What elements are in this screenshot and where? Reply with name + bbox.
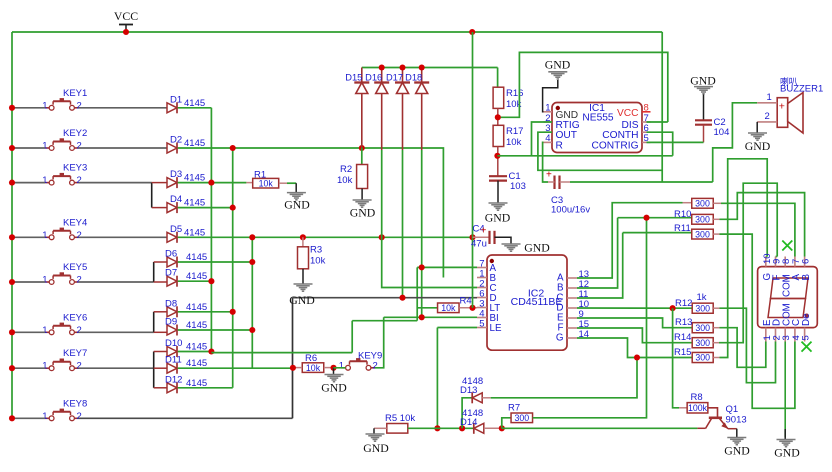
svg-text:47u: 47u: [471, 239, 487, 250]
wire column x252 (row5/D6/D9): [251, 237, 253, 368]
diode D17: [386, 68, 410, 151]
svg-text:300: 300: [695, 199, 710, 209]
svg-text:Q1: Q1: [726, 404, 739, 415]
wire buzzer feed: [713, 103, 758, 182]
svg-text:D15: D15: [345, 72, 362, 82]
pin 4 IC2 BI: [477, 308, 499, 324]
svg-text:VCC: VCC: [617, 108, 639, 119]
wire R7 to R10 node: [533, 218, 647, 418]
junction KEY5 left bus: [9, 279, 15, 285]
junction KEY2 left bus: [9, 145, 15, 151]
svg-text:R5 10k: R5 10k: [385, 413, 415, 424]
wire D10 row: [178, 351, 212, 353]
wire LE column to R5: [436, 328, 438, 429]
pin 6 IC2 D: [477, 288, 497, 304]
wire D12 row: [178, 387, 233, 389]
wire D17 column to D row: [402, 150, 404, 298]
wire R16-R17 junction to DIS riser: [497, 108, 499, 125]
switch KEY3: [42, 163, 87, 187]
svg-text:KEY1: KEY1: [63, 88, 87, 99]
wire R12 node to R8: [673, 308, 679, 408]
svg-text:D17: D17: [386, 72, 403, 82]
svg-text:1: 1: [42, 100, 47, 111]
wire R11 to display pin4 C: [713, 233, 719, 235]
wire C3 right to VCC riser: [560, 181, 571, 183]
wire R6 right to ground: [333, 368, 335, 374]
wire VCC column to LT: [472, 32, 474, 308]
wire D3 row to R1: [178, 182, 247, 184]
pin 2 IC1 RTIG: [544, 113, 580, 131]
wire R14 to display pin9 F: [712, 342, 719, 344]
svg-text:2: 2: [373, 360, 378, 371]
wire C1 to ground: [497, 181, 499, 203]
svg-text:R3: R3: [310, 245, 322, 256]
svg-text:1: 1: [42, 361, 47, 372]
svg-text:R15: R15: [674, 347, 691, 358]
svg-text:10k: 10k: [441, 303, 456, 313]
junction D16-D18 top rail: [379, 64, 385, 70]
svg-text:9013: 9013: [726, 415, 747, 426]
switch KEY9: [339, 351, 383, 372]
wire KEY4 to D5: [79, 236, 168, 238]
diode D13 4148: [460, 376, 483, 428]
resistor R8 100k: [687, 392, 708, 413]
svg-text:R16: R16: [506, 88, 523, 99]
svg-text:300: 300: [695, 215, 710, 225]
svg-text:D9: D9: [165, 317, 177, 328]
svg-text:D10: D10: [165, 338, 182, 349]
svg-text:CONTRIG: CONTRIG: [592, 140, 639, 151]
svg-text:104: 104: [714, 127, 730, 138]
resistor R6 10k: [293, 353, 334, 373]
pin 3 IC2 LT: [477, 298, 500, 314]
svg-text:1: 1: [339, 360, 344, 371]
resistor R14 300: [674, 332, 713, 348]
svg-text:De: De: [801, 313, 812, 326]
wire D9 row: [178, 329, 253, 331]
display DS1 7-segment body: [758, 267, 818, 328]
wire KEY2 leads: [12, 147, 45, 149]
wire KEY2 to D2: [79, 147, 168, 149]
junction R16/R17: [495, 114, 501, 120]
resistor R4 10k: [417, 295, 477, 313]
diode D4 4145: [167, 194, 205, 213]
wire OUT pin3 route: [538, 132, 662, 170]
wire BI row: [384, 316, 477, 318]
svg-text:GND: GND: [284, 198, 310, 212]
no-connect X display pin5: [802, 342, 812, 352]
svg-text:300: 300: [514, 413, 529, 423]
resistor R3 10k: [298, 237, 326, 268]
svg-text:1: 1: [42, 141, 47, 152]
svg-text:GND: GND: [774, 446, 800, 460]
pin 7 display A top: [791, 257, 802, 281]
wire R12 to D riser: [713, 307, 719, 309]
wire D16 column to C row: [382, 150, 477, 288]
diode D3 4145: [167, 169, 205, 188]
wire KEY1 leads: [12, 107, 45, 109]
wire R3 to ground: [302, 269, 304, 284]
diode D6 4145: [165, 249, 207, 268]
switch KEY2: [42, 128, 87, 152]
wire KEY9 to BI row: [375, 317, 384, 368]
junction KEY6 left bus: [9, 329, 15, 335]
diode D11 4145: [165, 355, 207, 374]
ground GND at C1: [489, 202, 508, 204]
wire VCC riser x662: [661, 32, 663, 182]
wire pin12 B riser: [577, 218, 618, 288]
transistor Q1 9013: [706, 404, 747, 429]
svg-text:KEY9: KEY9: [358, 351, 382, 362]
resistor R13 300: [675, 317, 713, 333]
svg-text:NE555: NE555: [582, 113, 613, 124]
wire D8 row: [178, 311, 233, 313]
wire KEY6 leads: [12, 331, 45, 333]
junction R17/C1/THR: [494, 153, 500, 159]
resistor R2 10k: [337, 164, 368, 189]
resistor R12 1k: [675, 292, 713, 313]
diode D14 4148: [460, 408, 484, 434]
pin 15 IC2 F: [558, 319, 590, 334]
svg-text:KEY3: KEY3: [63, 163, 87, 174]
wire column x211 (D1/D3/D7/D10): [210, 108, 212, 352]
wire D row (black) to IC2 pin6: [293, 297, 478, 299]
svg-text:R11: R11: [674, 223, 691, 234]
wire R17 to C1 and THR row: [497, 147, 499, 176]
junction KEY7 left bus: [9, 365, 15, 371]
wire D15 column to R2: [361, 148, 363, 165]
svg-text:BUZZER1: BUZZER1: [780, 84, 823, 95]
junction VCC rail: [123, 29, 129, 35]
svg-text:R13: R13: [675, 317, 692, 328]
svg-text:KEY8: KEY8: [63, 398, 87, 409]
op-amp U IC2 CD4511BE body: [487, 255, 567, 350]
svg-text:R12: R12: [675, 298, 692, 309]
svg-text:1: 1: [42, 230, 47, 241]
resistor R17 10k: [493, 125, 523, 148]
capacitor C4 47u: [471, 224, 495, 250]
wire D13 anode to R15 node: [482, 397, 491, 399]
svg-text:1: 1: [42, 275, 47, 286]
ground GND at R2: [353, 199, 372, 201]
ground GND at R6/KEY9: [325, 374, 344, 376]
pin 2 buzzer: [757, 121, 777, 123]
wire KEY7 leads: [12, 367, 45, 369]
svg-text:D4: D4: [170, 194, 182, 205]
wire IC1 pin1 to ground flag: [543, 80, 558, 112]
svg-text:300: 300: [695, 323, 710, 333]
pin 10 IC2 D: [556, 299, 589, 314]
svg-text:1: 1: [42, 175, 47, 186]
wire pin15 F to R14: [577, 328, 692, 343]
junction R6 terminals: [290, 365, 296, 371]
pin 13 IC2 A: [557, 269, 589, 284]
wire LE to R5 riser: [437, 327, 477, 329]
ground GND at R1: [287, 192, 306, 194]
svg-text:LE: LE: [490, 323, 502, 334]
pin 2 IC2 C: [477, 278, 497, 294]
wire KEY5 leads: [12, 281, 45, 283]
pin 1 buzzer: [757, 102, 777, 104]
junction R15/D13 node: [634, 354, 640, 360]
svg-text:R8: R8: [691, 392, 703, 403]
wire TRIG branch to pin2: [532, 122, 553, 156]
pin 4 IC1 R: [544, 133, 563, 151]
wire THR branch to pin6: [647, 132, 673, 156]
svg-text:R10: R10: [674, 209, 691, 220]
svg-text:R7: R7: [508, 403, 520, 414]
svg-text:2: 2: [77, 275, 82, 286]
wire display pin3 COM to ground: [784, 342, 786, 438]
wire R13 to display pin1 E: [713, 327, 719, 329]
wire KEY6 to D8/D9 branch: [79, 331, 154, 333]
diode D2 4145: [167, 135, 205, 154]
svg-text:+: +: [481, 225, 487, 236]
wire D1 row to column A1: [178, 107, 212, 109]
wire C4 to ground: [495, 237, 512, 243]
pin 10 display G top: [762, 253, 773, 280]
wire rail to transistor collector: [502, 427, 698, 429]
pin 6 display B top: [801, 257, 812, 281]
svg-text:5: 5: [801, 335, 812, 340]
ground GND above C2: [694, 86, 713, 88]
svg-text:10k: 10k: [506, 137, 522, 148]
svg-text:10k: 10k: [310, 256, 326, 267]
diode D16: [365, 68, 389, 151]
pin 8 display COM top: [781, 257, 792, 298]
svg-text:KEY4: KEY4: [63, 217, 87, 228]
wire Q1 emitter to ground: [728, 428, 737, 430]
pin 7 IC1 DIS: [622, 113, 651, 131]
diode D9 4145: [165, 317, 207, 336]
pin 5 IC1 CONTRIG: [592, 133, 651, 151]
junction D row: [399, 295, 405, 301]
junction A row: [419, 264, 425, 270]
svg-text:1: 1: [42, 411, 47, 422]
ground GND above IC1: [548, 71, 567, 73]
pin 1 display E bottom: [762, 319, 773, 342]
wire Q1 collector to rail: [697, 427, 705, 429]
svg-text:GND: GND: [350, 206, 376, 220]
diode D7 4145: [165, 268, 207, 287]
pin 9 IC2 E: [557, 309, 584, 324]
diode D5 4145: [167, 224, 205, 243]
svg-text:GND: GND: [321, 381, 347, 395]
wire KEY3 to D3/D4 branch: [79, 182, 152, 184]
svg-text:10k: 10k: [337, 175, 353, 186]
resistor RA 300: [683, 198, 714, 208]
buzzer BUZZER1: [777, 75, 823, 133]
pin 14 IC2 G: [556, 329, 589, 344]
svg-text:D18: D18: [405, 72, 422, 82]
pin 11 IC2 C: [556, 289, 588, 304]
wire pin11 C riser: [577, 233, 623, 298]
junction BI row: [419, 314, 425, 320]
wire D14 to R7 node: [484, 427, 502, 429]
svg-text:100k: 100k: [688, 403, 708, 413]
svg-text:6: 6: [801, 259, 812, 264]
svg-text:GND: GND: [363, 441, 389, 455]
wire KEY4 leads: [12, 236, 45, 238]
diode D15: [345, 68, 369, 151]
wire R6 left junction: [334, 367, 346, 369]
wire C2 to CONTRIG pin5: [703, 125, 705, 143]
wire pin14 G to R15: [577, 338, 692, 358]
svg-text:R: R: [556, 140, 563, 151]
svg-text:+: +: [779, 101, 785, 113]
svg-text:GND: GND: [724, 444, 750, 458]
node VCC power symbol: [114, 9, 138, 32]
ground GND at Q1: [727, 437, 746, 439]
wire A row: [417, 266, 477, 268]
svg-text:2: 2: [77, 100, 82, 111]
switch KEY8: [42, 398, 87, 422]
svg-text:R4: R4: [460, 295, 472, 306]
svg-text:2: 2: [77, 411, 82, 422]
junction KEY4 left bus: [9, 234, 15, 240]
svg-text:D7: D7: [165, 268, 177, 279]
svg-text:10k: 10k: [306, 363, 321, 373]
pin 1 IC2 B: [477, 268, 497, 284]
wire R15 to display pin10 G: [713, 357, 719, 359]
resistor R7 300: [502, 403, 533, 429]
junction LE/R5: [434, 425, 440, 431]
svg-text:D11: D11: [165, 355, 182, 366]
svg-text:2: 2: [77, 175, 82, 186]
capacitor C2 104: [695, 95, 729, 139]
ground GND at R5: [366, 433, 385, 435]
pin 5 IC2 LE: [477, 318, 502, 334]
svg-text:KEY5: KEY5: [63, 262, 87, 273]
diode D18: [405, 68, 429, 151]
junction bottom rail: [459, 425, 465, 431]
switch KEY4: [42, 217, 87, 241]
wire R1 to ground: [279, 182, 287, 184]
ground GND at R3: [294, 283, 313, 285]
svg-text:CD4511BE: CD4511BE: [511, 296, 563, 308]
svg-text:300: 300: [695, 229, 710, 239]
wire KEY1 to D1: [79, 107, 168, 109]
svg-text:G: G: [556, 333, 564, 344]
wire buzzer pin2 to ground: [756, 122, 758, 133]
diode D8 4145: [165, 298, 207, 317]
wire KEY8 leads: [12, 417, 45, 419]
svg-text:2: 2: [77, 325, 82, 336]
svg-text:KEY2: KEY2: [63, 128, 87, 139]
resistor R11 300: [623, 223, 714, 239]
svg-text:2: 2: [765, 111, 770, 122]
pin 7 IC2 A: [477, 258, 497, 274]
junction KEY3 left bus: [9, 180, 15, 186]
no-connect X display pin8: [782, 241, 792, 251]
svg-text:1: 1: [42, 325, 47, 336]
pin 8 IC1 VCC: [617, 103, 651, 120]
wire pin10 D to R12: [577, 307, 692, 309]
svg-text:D6: D6: [165, 249, 177, 260]
wire KEY7 to D10/D11/D12 branch: [79, 367, 154, 369]
wire KEY5 to D6/D7 branch: [79, 281, 154, 283]
svg-text:R14: R14: [674, 332, 691, 343]
diode D10 4145: [165, 338, 207, 357]
svg-text:4: 4: [545, 133, 550, 144]
svg-text:KEY7: KEY7: [63, 348, 87, 359]
junction KEY1 left bus: [9, 105, 15, 111]
svg-text:5: 5: [479, 318, 484, 329]
wire D11 row to R6: [178, 367, 293, 369]
svg-text:D12: D12: [165, 374, 182, 385]
junction KEY8 left bus: [9, 415, 15, 421]
svg-text:D16: D16: [365, 72, 382, 82]
svg-text:GND: GND: [524, 241, 550, 255]
wire D6 row: [178, 261, 253, 263]
pin 2 display D bottom: [772, 319, 783, 342]
svg-text:2: 2: [77, 361, 82, 372]
resistor R16 10k: [493, 87, 523, 110]
svg-text:R6: R6: [305, 353, 317, 364]
ground GND at C4: [502, 243, 521, 245]
wire bottom rail: [408, 427, 474, 429]
switch KEY7: [42, 348, 87, 372]
wire R10 to display pin6 B: [713, 218, 719, 220]
wire THR/TRIG row: [497, 155, 672, 157]
svg-text:KEY6: KEY6: [63, 312, 87, 323]
svg-text:GND: GND: [745, 139, 771, 153]
wire D15 rail to R16: [497, 68, 499, 88]
wire KEY8 row to D-net (black): [79, 417, 293, 419]
wire D7 row: [178, 280, 212, 282]
pin 1 IC1 GND: [544, 103, 579, 121]
wire VCC top rail: [12, 31, 662, 33]
svg-text:GND: GND: [485, 211, 511, 225]
wire R2 to ground: [361, 189, 363, 200]
junction D14/R7: [499, 425, 505, 431]
diode D12 4145: [165, 374, 207, 393]
svg-text:GND: GND: [690, 74, 716, 88]
wire KEY4/D5 row to VCC column: [178, 236, 473, 238]
svg-text:300: 300: [695, 338, 710, 348]
pin 3 IC1 OUT: [544, 123, 578, 141]
wire C3 left to pin4 R: [548, 181, 555, 183]
junction R12 node: [670, 305, 676, 311]
junction R10 R7 node: [643, 215, 649, 221]
wire pin13 A to segment resistor: [577, 203, 683, 278]
svg-text:2: 2: [77, 141, 82, 152]
svg-text:D8: D8: [165, 298, 177, 309]
pin 5 display De bottom: [801, 313, 812, 342]
wire D18 column to BI row: [421, 150, 423, 317]
pin 12 IC2 B: [557, 279, 589, 294]
capacitor C3 100u/16v: [546, 170, 590, 216]
op-amp U IC1 NE555 body: [552, 103, 642, 153]
svg-text:GND: GND: [289, 293, 315, 307]
wire D4 row: [178, 207, 233, 209]
svg-text:R2: R2: [340, 164, 352, 175]
resistor R15 300: [674, 347, 713, 363]
svg-text:R1: R1: [254, 170, 266, 181]
resistor R5 10k: [385, 413, 415, 433]
wire KEY3 leads: [12, 182, 45, 184]
capacitor C1 103: [489, 171, 526, 192]
pin 4 display C bottom: [791, 319, 802, 342]
diode D1 4145: [167, 94, 205, 113]
svg-text:D14: D14: [460, 417, 477, 428]
wire R5 left to ground: [374, 427, 387, 429]
junction R4 LT: [469, 305, 475, 311]
svg-text:GND: GND: [545, 58, 571, 72]
wire D10 row riser: [351, 321, 353, 353]
resistor R1 10k: [246, 170, 278, 189]
svg-text:D3: D3: [170, 169, 182, 180]
